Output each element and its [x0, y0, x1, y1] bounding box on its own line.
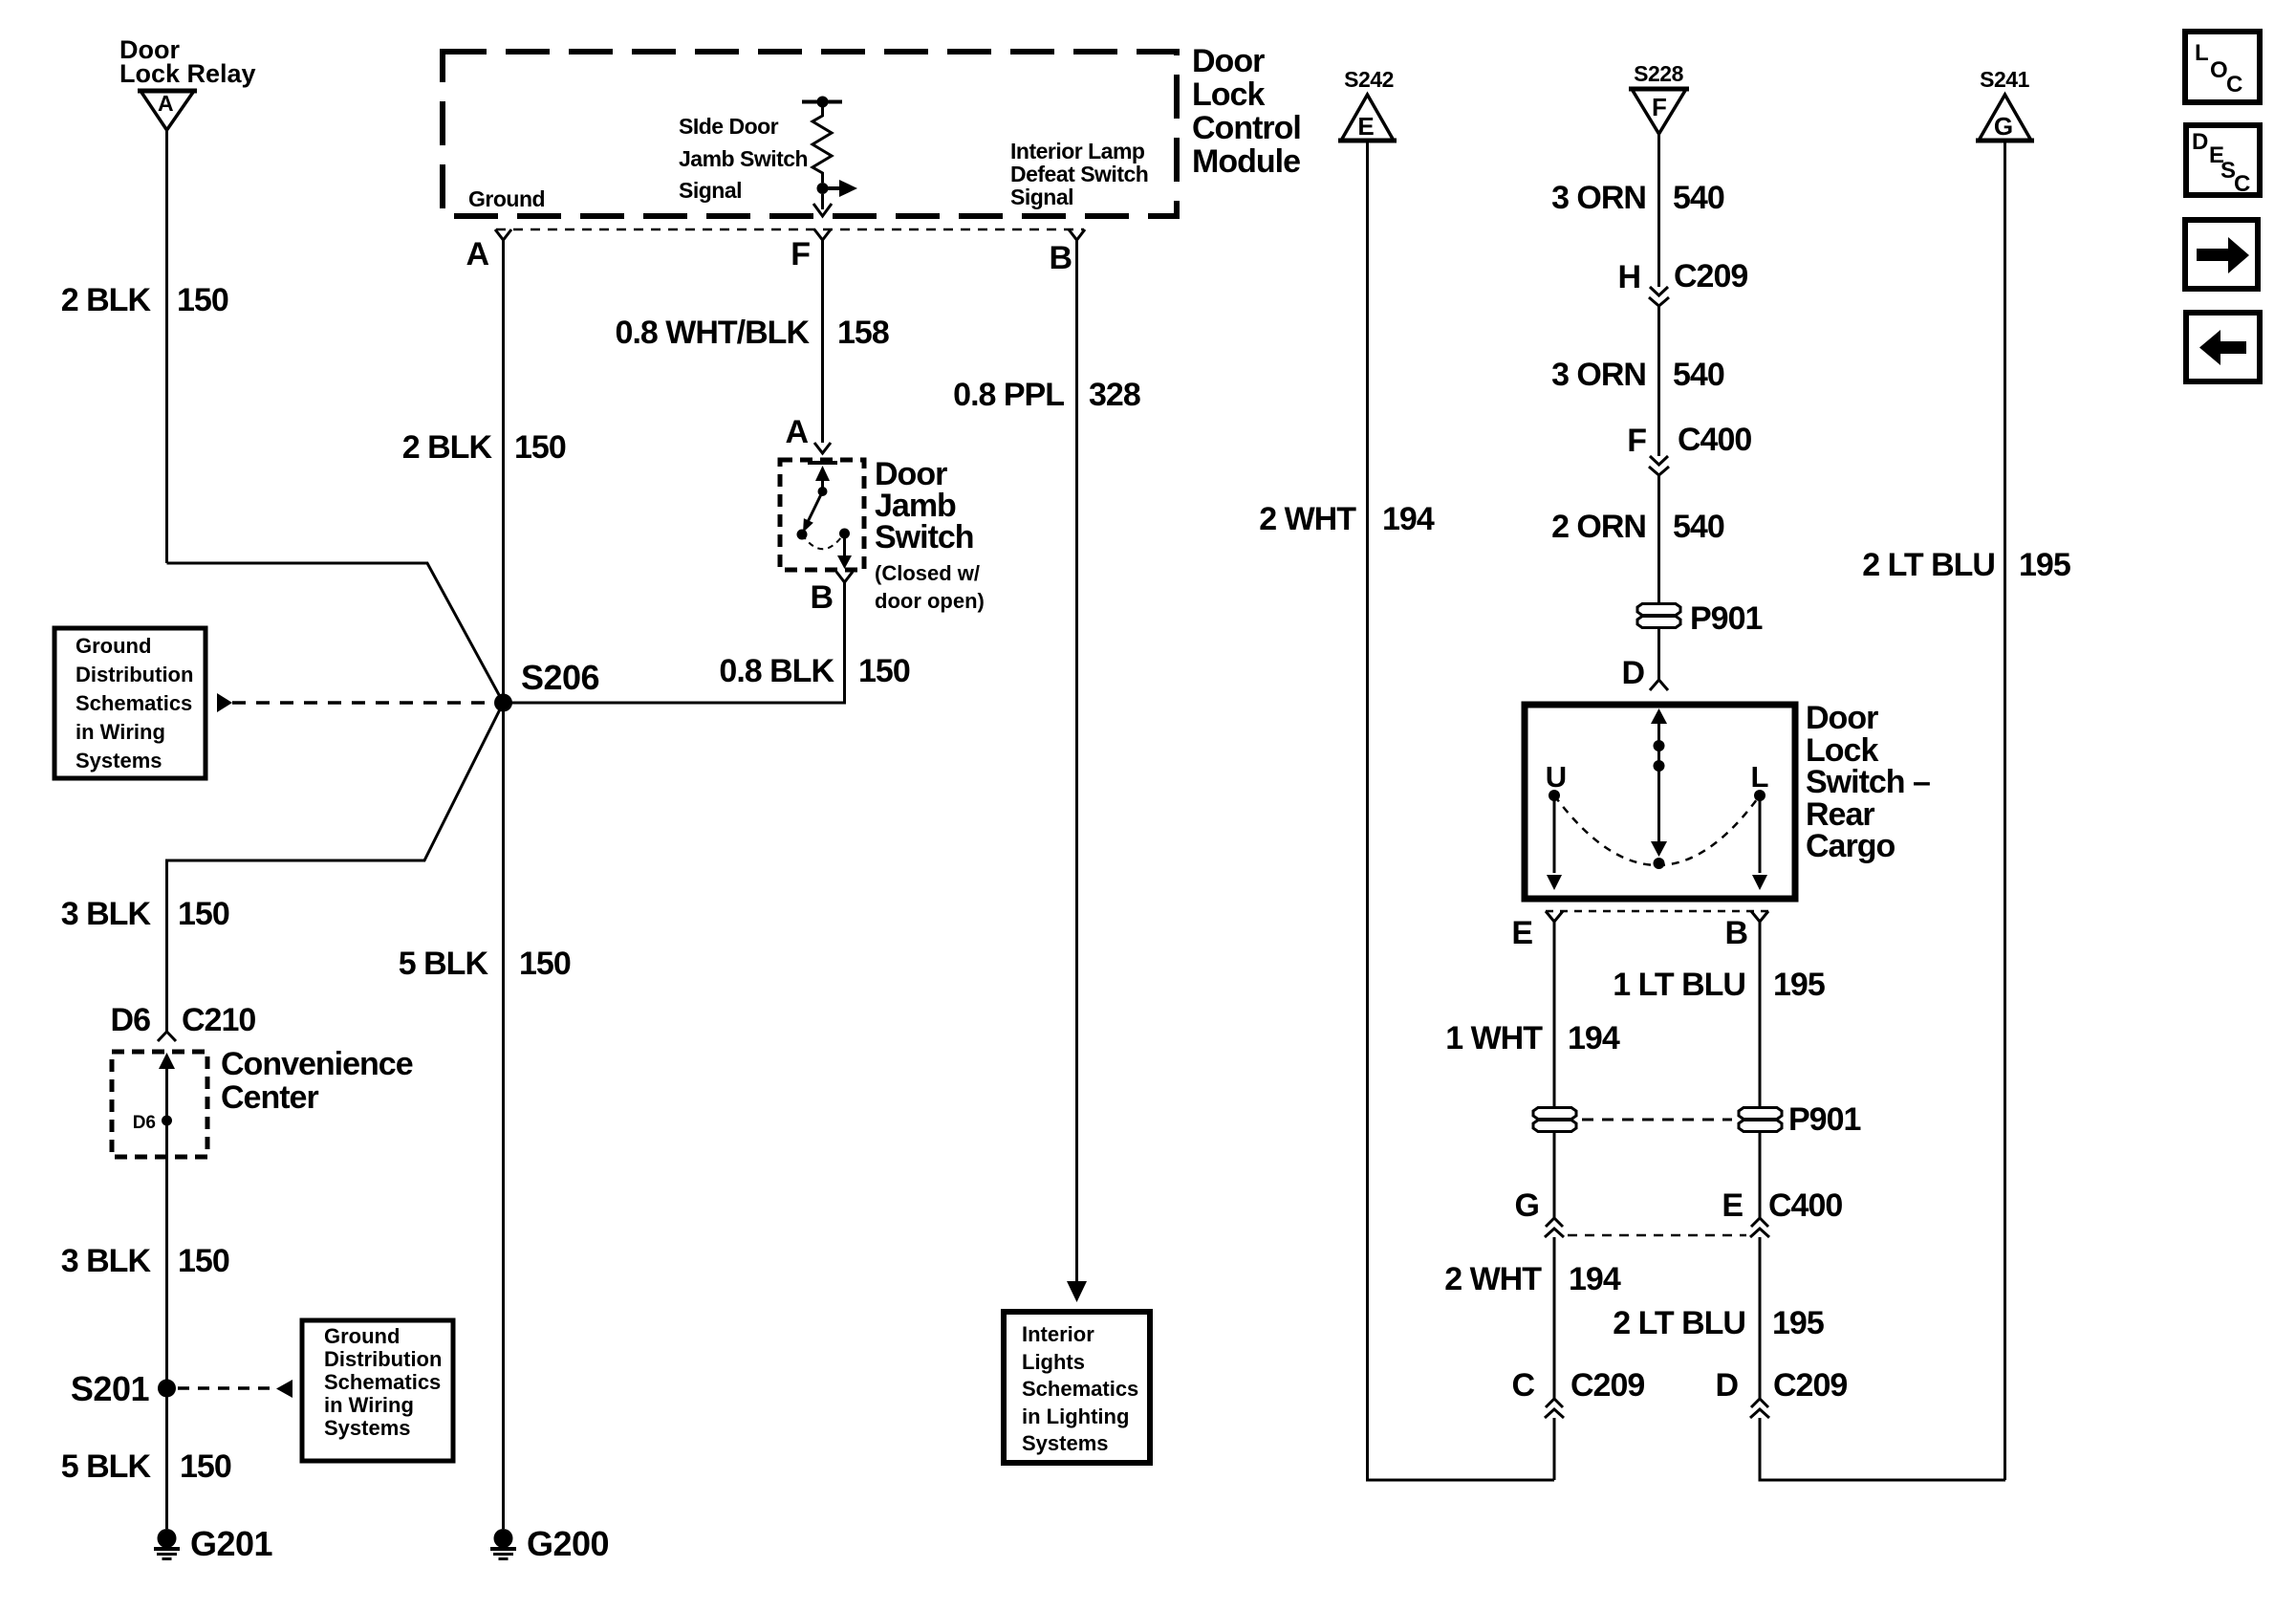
- svg-text:2 WHT: 2 WHT: [1259, 501, 1356, 537]
- switch contact right (jamb switch): [839, 529, 850, 539]
- svg-text:3 BLK: 3 BLK: [61, 896, 152, 932]
- svg-text:C: C: [2234, 171, 2250, 197]
- dashed reference line (S201 to box): [178, 1386, 275, 1390]
- switch arm with arrowhead (jamb switch): [803, 491, 823, 533]
- value label 2 WHT 194 (S242 wire): [1259, 501, 1435, 537]
- svg-text:C209: C209: [1570, 1367, 1644, 1404]
- value label 3 BLK 150 (upper): [61, 896, 229, 932]
- svg-text:D: D: [1715, 1367, 1738, 1404]
- svg-text:Distribution: Distribution: [76, 663, 193, 686]
- component Convenience Center (dashed box): [112, 1052, 207, 1157]
- svg-text:195: 195: [1773, 967, 1825, 1003]
- svg-text:158: 158: [837, 315, 889, 351]
- wire 2 BLK 150 (module A to S206 to G200): [502, 240, 505, 1529]
- svg-text:Ground: Ground: [468, 186, 545, 211]
- switch lower contact dot (door lock switch): [1654, 858, 1665, 869]
- svg-text:540: 540: [1673, 509, 1724, 545]
- svg-text:Module: Module: [1192, 143, 1300, 180]
- svg-text:S201: S201: [71, 1369, 150, 1408]
- svg-text:3 ORN: 3 ORN: [1551, 357, 1646, 393]
- svg-text:A: A: [466, 236, 488, 272]
- svg-text:in Wiring: in Wiring: [76, 720, 165, 744]
- dashed connector face line (G to E C400): [1568, 1234, 1746, 1237]
- svg-text:Control: Control: [1192, 110, 1301, 146]
- wire 0.8 WHT/BLK 158 (module F to jamb switch A): [821, 240, 824, 443]
- svg-text:G: G: [1994, 112, 2013, 141]
- wire 1 WHT 194 (switch E to P901): [1553, 922, 1556, 1108]
- value label 5 BLK 150 (center wire): [399, 946, 571, 982]
- svg-text:Lights: Lights: [1022, 1350, 1085, 1374]
- value label 0.8 BLK 150: [719, 653, 909, 689]
- svg-text:Signal: Signal: [679, 178, 742, 203]
- wire 3 BLK 150 (Convenience Center to S201): [165, 1121, 168, 1388]
- svg-text:150: 150: [519, 946, 571, 982]
- arrow (module internal, down to pin F): [813, 194, 832, 216]
- wire 2 BLK 150 (relay A down to corner): [165, 130, 168, 563]
- wire (corner from relay to S206): [167, 563, 504, 703]
- value label 1 WHT 194: [1445, 1020, 1620, 1056]
- svg-text:Interior: Interior: [1022, 1322, 1094, 1346]
- svg-text:in Wiring: in Wiring: [324, 1393, 414, 1417]
- svg-text:(Closed w/: (Closed w/: [875, 561, 980, 585]
- connector triangle A (Door Lock Relay): [138, 91, 197, 130]
- svg-text:B: B: [1724, 915, 1747, 951]
- svg-text:3 BLK: 3 BLK: [61, 1243, 152, 1279]
- svg-text:2 LT BLU: 2 LT BLU: [1862, 547, 1995, 583]
- arrow down to pin B (jamb switch): [837, 533, 852, 569]
- svg-text:C209: C209: [1773, 1367, 1847, 1404]
- arrow up to bar (jamb switch): [815, 466, 830, 491]
- arrow (module internal signal, to right): [823, 180, 858, 197]
- grommet P901 (right, on LT BLU wire): [1739, 1101, 1860, 1138]
- svg-text:Schematics: Schematics: [76, 691, 192, 715]
- svg-text:Systems: Systems: [324, 1416, 411, 1440]
- svg-text:5 BLK: 5 BLK: [399, 946, 489, 982]
- wire (S206 down-left to lower-left wire): [167, 703, 504, 1032]
- svg-text:D6: D6: [111, 1002, 151, 1038]
- svg-text:Systems: Systems: [76, 749, 162, 773]
- svg-text:Center: Center: [221, 1079, 318, 1116]
- svg-text:2 BLK: 2 BLK: [402, 429, 493, 466]
- svg-text:Cargo: Cargo: [1806, 828, 1895, 864]
- wire (P901 to pin E C400): [1759, 1131, 1762, 1218]
- wire (C C209 down to bottom run): [1553, 1418, 1556, 1480]
- value label 2 ORN 540: [1551, 509, 1724, 545]
- pin F / connector C400: [1627, 422, 1751, 475]
- reference box Interior Lights Schematics in Lighting Systems: [1004, 1312, 1150, 1463]
- connector triangle F (S228): [1629, 89, 1689, 134]
- component Door Lock Relay (label): [119, 35, 256, 88]
- svg-text:A: A: [158, 91, 173, 116]
- arrow (0.8 PPL wire to Interior Lights box): [1067, 1281, 1087, 1302]
- switch contact bar (jamb switch top): [808, 461, 837, 465]
- ground G200: [490, 1524, 609, 1563]
- svg-text:150: 150: [178, 896, 229, 932]
- wire 1 LT BLU 195 (switch B to P901): [1759, 922, 1762, 1108]
- reference box Ground Distribution Schematics in Wiring Systems (lower): [302, 1320, 453, 1461]
- value label 2 WHT 194 (lower): [1444, 1261, 1621, 1297]
- svg-text:G200: G200: [527, 1524, 609, 1563]
- pin A (module): [466, 229, 511, 272]
- svg-text:A: A: [785, 414, 808, 450]
- svg-text:195: 195: [2019, 547, 2070, 583]
- svg-text:194: 194: [1569, 1261, 1621, 1297]
- svg-text:Schematics: Schematics: [1022, 1377, 1138, 1401]
- value label 3 ORN 540 (lower): [1551, 357, 1724, 393]
- dashed reference line (box to S206): [232, 701, 494, 705]
- svg-text:Jamb Switch: Jamb Switch: [679, 146, 808, 171]
- value label 0.8 WHT/BLK 158: [616, 315, 889, 351]
- value label 2 BLK 150 (center wire): [402, 429, 566, 466]
- svg-text:P901: P901: [1788, 1101, 1860, 1138]
- dashed travel arc (jamb switch): [802, 533, 844, 549]
- dashed travel arc (door lock switch): [1554, 795, 1760, 865]
- arrow (reference pointer to S206): [217, 693, 232, 712]
- net label Interior Lamp Defeat Switch Signal (module internal): [1010, 139, 1148, 209]
- dashed connector face line (switch pins E B): [1546, 910, 1768, 913]
- wire (P901 to pin G): [1553, 1131, 1556, 1218]
- svg-text:C400: C400: [1678, 422, 1751, 458]
- svg-text:G201: G201: [190, 1524, 273, 1563]
- component Door Jamb Switch (label): [875, 456, 985, 613]
- wire 2 LT BLU 195 (E to D C209): [1759, 1237, 1762, 1399]
- svg-text:Ground: Ground: [76, 634, 151, 658]
- svg-text:E: E: [1357, 112, 1374, 141]
- svg-text:Door: Door: [1806, 700, 1878, 736]
- connector C210 chevron: [158, 1032, 176, 1041]
- svg-text:Distribution: Distribution: [324, 1347, 442, 1371]
- svg-text:door open): door open): [875, 589, 985, 613]
- svg-text:150: 150: [178, 1243, 229, 1279]
- dashed tie line (P901 pair): [1582, 1119, 1732, 1121]
- pin D (door lock switch): [1621, 655, 1668, 691]
- svg-text:E: E: [1511, 915, 1532, 951]
- switch contact left (jamb switch): [797, 530, 808, 540]
- pin E / connector C400 (lower): [1722, 1187, 1842, 1237]
- svg-text:2 ORN: 2 ORN: [1551, 509, 1646, 545]
- svg-text:Schematics: Schematics: [324, 1370, 441, 1394]
- svg-text:Convenience: Convenience: [221, 1046, 413, 1082]
- svg-text:Switch: Switch: [875, 519, 974, 555]
- wire 2 LT BLU 195 (S241 down): [2004, 141, 2006, 1480]
- svg-text:C210: C210: [182, 1002, 255, 1038]
- switch common arm (door lock switch): [1651, 708, 1667, 857]
- pin D6 / connector C210 label: [111, 1002, 256, 1038]
- svg-text:C209: C209: [1674, 258, 1747, 294]
- svg-text:150: 150: [180, 1448, 231, 1485]
- svg-text:Lock: Lock: [1192, 76, 1265, 113]
- wire 3 ORN 540 (C209 to C400): [1657, 306, 1660, 456]
- pin G (connector): [1515, 1187, 1564, 1237]
- svg-text:0.8 PPL: 0.8 PPL: [953, 377, 1064, 413]
- svg-text:Door: Door: [1192, 43, 1265, 79]
- svg-text:C400: C400: [1768, 1187, 1842, 1224]
- connector triangle E (S242): [1338, 95, 1397, 141]
- svg-text:F: F: [1652, 93, 1667, 121]
- svg-text:1 LT BLU: 1 LT BLU: [1613, 967, 1745, 1003]
- component Door Lock Control Module (dashed box): [443, 52, 1177, 216]
- svg-text:194: 194: [1382, 501, 1435, 537]
- node (resistor output junction): [817, 183, 829, 194]
- svg-text:S206: S206: [521, 658, 599, 697]
- svg-text:E: E: [1722, 1187, 1743, 1224]
- wire 3 ORN 540 (S228 to C209): [1657, 134, 1660, 287]
- svg-text:Systems: Systems: [1022, 1431, 1109, 1455]
- svg-text:2 LT BLU: 2 LT BLU: [1613, 1305, 1745, 1341]
- pin C / connector C209 (lower left): [1511, 1367, 1644, 1418]
- connector triangle G (S241): [1976, 95, 2034, 141]
- resistor (module internal pull-up): [802, 97, 842, 184]
- svg-text:Interior Lamp: Interior Lamp: [1010, 139, 1145, 163]
- contact U (door lock switch): [1546, 760, 1567, 890]
- svg-text:1 WHT: 1 WHT: [1445, 1020, 1543, 1056]
- wire 0.8 BLK 150 (jamb switch B to S206): [504, 582, 845, 703]
- svg-text:SIde Door: SIde Door: [679, 114, 779, 139]
- icon DESC button: [2186, 125, 2260, 197]
- component Convenience Center (label): [221, 1046, 413, 1116]
- svg-text:in Lighting: in Lighting: [1022, 1404, 1129, 1428]
- contact L (door lock switch): [1751, 760, 1769, 890]
- svg-text:B: B: [810, 579, 833, 616]
- svg-text:F: F: [791, 236, 810, 272]
- svg-text:S241: S241: [1980, 67, 2029, 92]
- svg-text:B: B: [1049, 240, 1072, 276]
- svg-text:Ground: Ground: [324, 1324, 400, 1348]
- reference box Ground Distribution Schematics in Wiring Systems (upper): [54, 628, 206, 778]
- svg-text:O: O: [2210, 57, 2228, 83]
- svg-text:150: 150: [858, 653, 910, 689]
- switch pivot (jamb switch): [818, 487, 828, 496]
- component Door Lock Switch - Rear Cargo (label): [1806, 700, 1930, 864]
- wire 2 WHT 194 (S242 down and to C-C209 leg): [1368, 141, 1555, 1480]
- svg-text:D: D: [2192, 129, 2208, 155]
- icon left-arrow button: [2186, 313, 2260, 381]
- svg-text:195: 195: [1772, 1305, 1824, 1341]
- ground G201: [154, 1524, 273, 1563]
- svg-text:5 BLK: 5 BLK: [61, 1448, 152, 1485]
- node S206 (splice junction): [494, 658, 599, 712]
- pin B (module): [1049, 229, 1085, 276]
- svg-text:3 ORN: 3 ORN: [1551, 180, 1646, 216]
- svg-text:0.8 BLK: 0.8 BLK: [719, 653, 834, 689]
- wire (P901 to switch pin D): [1657, 627, 1660, 680]
- component Door Lock Switch - Rear Cargo (box): [1525, 705, 1795, 899]
- svg-text:150: 150: [177, 282, 228, 318]
- net label Side Door Jamb Switch Signal (module internal): [679, 114, 808, 203]
- pin B (door lock switch): [1724, 911, 1768, 951]
- svg-text:H: H: [1617, 259, 1640, 295]
- wire (D C209 down and right to S241 leg): [1760, 1418, 2005, 1480]
- svg-text:S242: S242: [1344, 67, 1394, 92]
- component Door Lock Control Module (label): [1192, 43, 1301, 180]
- grommet P901 (left, on WHT wire): [1533, 1108, 1576, 1132]
- arrow (reference pointer from box to S201): [276, 1380, 292, 1398]
- svg-text:G: G: [1515, 1187, 1539, 1224]
- value label 2 BLK 150 (left wire): [61, 282, 228, 318]
- dashed connector face line (module pins A F B): [496, 229, 1084, 231]
- svg-text:540: 540: [1673, 180, 1724, 216]
- wire 5 BLK 150 (S201 to G201): [165, 1388, 168, 1529]
- svg-text:C: C: [2226, 72, 2242, 98]
- svg-text:F: F: [1627, 423, 1646, 459]
- value label 1 LT BLU 195: [1613, 967, 1825, 1003]
- pin D6 (inside Convenience Center): [133, 1113, 172, 1133]
- icon LOC button: [2185, 32, 2260, 102]
- svg-text:S228: S228: [1634, 61, 1683, 86]
- svg-text:Signal: Signal: [1010, 185, 1073, 209]
- value label 0.8 PPL 328: [953, 377, 1140, 413]
- pin D / connector C209 (lower right): [1715, 1367, 1847, 1418]
- svg-text:Lock Relay: Lock Relay: [119, 59, 256, 88]
- value label 2 LT BLU 195 (S241 wire): [1862, 547, 2070, 583]
- wire 2 WHT 194 (G to C C209): [1553, 1237, 1556, 1399]
- svg-text:Switch –: Switch –: [1806, 764, 1930, 800]
- svg-text:L: L: [1751, 760, 1769, 794]
- pin B (door jamb switch): [810, 572, 853, 616]
- svg-text:540: 540: [1673, 357, 1724, 393]
- pin F (module): [791, 229, 831, 272]
- wire 2 ORN 540 (C400 to P901): [1657, 475, 1660, 603]
- grommet P901 (top, on S228 wire): [1637, 600, 1762, 637]
- arrow up into Convenience Center: [159, 1053, 175, 1121]
- node S201 (splice junction): [71, 1369, 176, 1408]
- svg-text:D6: D6: [133, 1113, 156, 1133]
- value label 3 BLK 150 (lower): [61, 1243, 229, 1279]
- svg-text:2 BLK: 2 BLK: [61, 282, 152, 318]
- svg-text:L: L: [2195, 40, 2209, 66]
- svg-text:2 WHT: 2 WHT: [1444, 1261, 1542, 1297]
- value label 3 ORN 540 (upper): [1551, 180, 1724, 216]
- value label 2 LT BLU 195 (lower): [1613, 1305, 1824, 1341]
- svg-text:D: D: [1621, 655, 1644, 691]
- svg-text:328: 328: [1089, 377, 1140, 413]
- svg-text:194: 194: [1568, 1020, 1620, 1056]
- svg-text:150: 150: [514, 429, 566, 466]
- svg-text:C: C: [1511, 1367, 1534, 1404]
- pin E (door lock switch): [1511, 911, 1563, 951]
- component Door Jamb Switch (dashed box): [780, 460, 864, 570]
- svg-text:0.8 WHT/BLK: 0.8 WHT/BLK: [616, 315, 811, 351]
- svg-text:U: U: [1546, 760, 1567, 794]
- pin H / connector C209: [1617, 258, 1747, 306]
- wire 0.8 PPL 328 (module B down): [1075, 240, 1078, 1283]
- value label 5 BLK 150 (left): [61, 1448, 231, 1485]
- svg-text:Defeat Switch: Defeat Switch: [1010, 162, 1148, 186]
- icon right-arrow button: [2185, 220, 2258, 289]
- pin A (door jamb switch): [785, 414, 831, 453]
- svg-text:P901: P901: [1690, 600, 1762, 637]
